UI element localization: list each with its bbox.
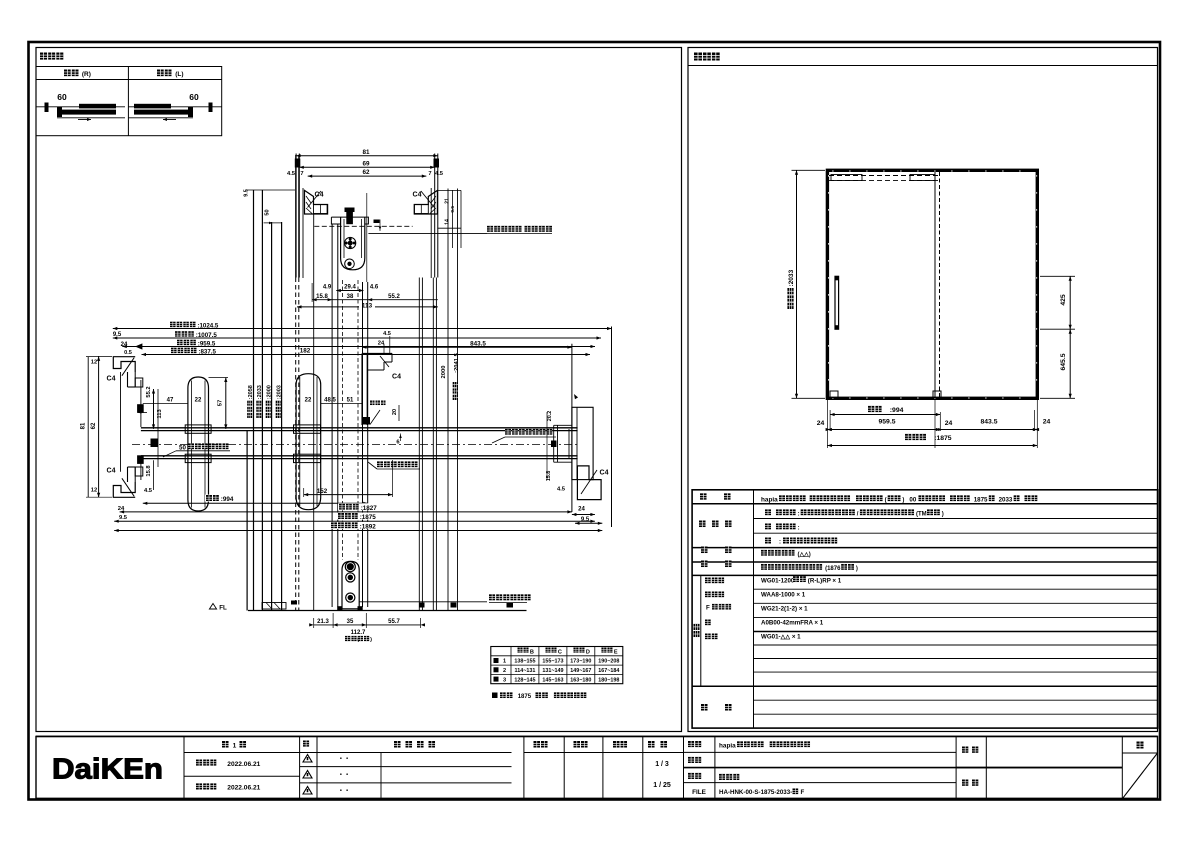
- svg-text::1875: :1875: [360, 514, 377, 521]
- svg-text:･ ･: ･ ･: [339, 770, 349, 779]
- svg-text:24: 24: [121, 342, 128, 348]
- svg-text:4.5: 4.5: [557, 487, 566, 493]
- svg-text:4.6: 4.6: [370, 285, 379, 291]
- svg-text::1892: :1892: [360, 524, 377, 531]
- svg-text:55.2: 55.2: [388, 294, 400, 300]
- svg-text:HA-HNK-00-S-1875-2033-: HA-HNK-00-S-1875-2033-: [719, 789, 792, 796]
- svg-text:47: 47: [167, 398, 174, 404]
- svg-text:4.5: 4.5: [287, 171, 296, 177]
- svg-text:20.2: 20.2: [547, 411, 553, 422]
- svg-text::959.5: :959.5: [198, 340, 216, 347]
- svg-text:C4: C4: [315, 192, 324, 199]
- svg-text:F: F: [706, 605, 710, 612]
- svg-text:2033: 2033: [999, 497, 1013, 504]
- svg-text:DaiKEn: DaiKEn: [52, 754, 163, 786]
- svg-text:(: (: [885, 498, 887, 504]
- svg-text:425: 425: [1060, 294, 1067, 306]
- svg-text:173~190: 173~190: [570, 659, 591, 665]
- svg-text:(L): (L): [175, 71, 183, 78]
- svg-text:FL: FL: [219, 605, 227, 612]
- svg-text::837.5: :837.5: [198, 348, 216, 355]
- svg-text:48.5: 48.5: [324, 398, 336, 404]
- svg-text::2041.5: :2041.5: [454, 352, 460, 372]
- svg-text:4.9: 4.9: [323, 285, 332, 291]
- svg-text:9.5: 9.5: [119, 515, 128, 521]
- svg-text:･ ･: ･ ･: [339, 754, 349, 763]
- svg-text::2003: :2003: [277, 385, 283, 399]
- svg-text:14: 14: [444, 219, 450, 225]
- svg-text:hapia: hapia: [761, 497, 778, 504]
- svg-text:2000: 2000: [441, 366, 447, 379]
- svg-text:7: 7: [300, 171, 303, 177]
- svg-text:C4: C4: [413, 192, 422, 199]
- svg-text:C: C: [558, 649, 562, 655]
- svg-text:55.7: 55.7: [388, 619, 400, 625]
- svg-text:15.8: 15.8: [316, 294, 328, 300]
- svg-text:163~180: 163~180: [570, 677, 591, 683]
- svg-text::994: :994: [890, 407, 904, 414]
- svg-text::1007.5: :1007.5: [196, 332, 218, 339]
- svg-text:): ): [856, 566, 858, 572]
- svg-text:62: 62: [362, 169, 370, 176]
- svg-text:959.5: 959.5: [878, 419, 895, 426]
- svg-text::2000: :2000: [267, 385, 273, 399]
- svg-text:60: 60: [189, 92, 199, 102]
- svg-text:2022.06.21: 2022.06.21: [227, 761, 260, 768]
- svg-text:167~184: 167~184: [598, 668, 619, 674]
- svg-text:4.5: 4.5: [144, 488, 153, 494]
- svg-text:0.5: 0.5: [124, 350, 132, 356]
- svg-text:): ): [942, 512, 944, 518]
- svg-text::994: :994: [221, 496, 234, 503]
- svg-text:29.4: 29.4: [344, 285, 356, 291]
- svg-text::1827: :1827: [361, 505, 378, 512]
- svg-text:hapia: hapia: [719, 743, 736, 750]
- svg-text:128~145: 128~145: [514, 677, 535, 683]
- svg-text:00: 00: [909, 497, 916, 504]
- svg-text:9.5: 9.5: [244, 189, 250, 197]
- svg-text::: :: [779, 540, 781, 546]
- svg-text:WG01-1200: WG01-1200: [761, 577, 795, 584]
- svg-text:4.5: 4.5: [383, 331, 391, 337]
- svg-text:1 / 25: 1 / 25: [653, 782, 671, 789]
- svg-text:): ): [370, 637, 372, 643]
- svg-text:21: 21: [444, 198, 450, 204]
- svg-text::: :: [798, 512, 800, 518]
- svg-text:180~198: 180~198: [598, 677, 619, 683]
- svg-text:B: B: [530, 649, 534, 655]
- svg-text:9.5: 9.5: [581, 517, 590, 523]
- svg-text:C4: C4: [392, 374, 401, 381]
- svg-text:(TM: (TM: [916, 512, 927, 518]
- svg-text:155~173: 155~173: [542, 659, 563, 665]
- svg-text:645.5: 645.5: [1060, 353, 1067, 370]
- svg-text::2058: :2058: [248, 385, 254, 399]
- svg-text:20: 20: [392, 409, 398, 415]
- svg-text:1: 1: [233, 743, 237, 750]
- svg-text:･ ･: ･ ･: [339, 786, 349, 795]
- svg-text:24: 24: [118, 506, 125, 512]
- svg-text:): ): [902, 498, 904, 504]
- svg-text:(1876: (1876: [825, 566, 841, 572]
- svg-text:152: 152: [317, 488, 328, 495]
- svg-text:E: E: [614, 649, 618, 655]
- svg-text::1875: :1875: [934, 435, 952, 442]
- svg-text:C4: C4: [600, 470, 609, 477]
- svg-text:182: 182: [300, 348, 311, 355]
- svg-text:2: 2: [503, 668, 506, 674]
- svg-text:843.5: 843.5: [470, 340, 486, 347]
- svg-text:3: 3: [503, 677, 506, 683]
- svg-text:112.7: 112.7: [351, 630, 366, 636]
- svg-text:D: D: [586, 649, 590, 655]
- svg-text:60: 60: [57, 92, 67, 102]
- svg-text:FILE: FILE: [692, 789, 707, 796]
- svg-text:1 / 3: 1 / 3: [655, 761, 669, 768]
- svg-text:C4: C4: [107, 376, 116, 383]
- svg-text:114~131: 114~131: [515, 668, 536, 674]
- svg-text:12: 12: [91, 488, 97, 494]
- svg-text:24: 24: [1043, 419, 1051, 426]
- svg-text:12: 12: [91, 360, 97, 366]
- svg-text:69: 69: [362, 160, 370, 167]
- svg-text:35: 35: [347, 619, 354, 625]
- svg-text:57: 57: [218, 400, 224, 406]
- svg-text:51: 51: [347, 398, 354, 404]
- svg-text:145~163: 145~163: [542, 677, 563, 683]
- svg-text:24: 24: [817, 420, 825, 427]
- svg-text:81: 81: [362, 149, 370, 156]
- svg-text:1875: 1875: [518, 694, 532, 700]
- svg-text:2022.06.21: 2022.06.21: [227, 785, 260, 792]
- svg-text:WG21-2(1-2) × 1: WG21-2(1-2) × 1: [761, 606, 808, 613]
- svg-text:1: 1: [503, 659, 506, 665]
- svg-text:149~167: 149~167: [570, 668, 591, 674]
- svg-text:(△△): (△△): [798, 551, 811, 558]
- svg-text:21.3: 21.3: [317, 619, 329, 625]
- svg-text:24: 24: [945, 420, 953, 427]
- svg-text:(R): (R): [82, 71, 91, 78]
- svg-text::1024.5: :1024.5: [197, 322, 219, 329]
- svg-text:22: 22: [195, 398, 202, 404]
- svg-text:A0B00-42mmFRA × 1: A0B00-42mmFRA × 1: [761, 619, 824, 626]
- svg-text:24: 24: [578, 507, 585, 513]
- svg-text:7: 7: [428, 171, 431, 177]
- svg-text:15.8: 15.8: [146, 465, 152, 477]
- svg-text:22: 22: [305, 398, 312, 404]
- svg-text:190~208: 190~208: [598, 659, 619, 665]
- svg-text:C4: C4: [107, 468, 116, 475]
- svg-text:WG01-△△ × 1: WG01-△△ × 1: [761, 633, 801, 640]
- svg-text:55.2: 55.2: [146, 386, 152, 397]
- svg-text:4.5: 4.5: [435, 171, 444, 177]
- svg-text:843.5: 843.5: [980, 419, 997, 426]
- svg-text:WAA8-1000 × 1: WAA8-1000 × 1: [761, 591, 806, 598]
- svg-text:F: F: [801, 789, 805, 796]
- svg-text::: :: [798, 526, 800, 532]
- svg-text:(R-L)RP × 1: (R-L)RP × 1: [808, 577, 842, 584]
- svg-text::2033: :2033: [788, 269, 795, 286]
- svg-text:50: 50: [265, 209, 271, 215]
- svg-text:81: 81: [81, 422, 87, 429]
- svg-text:38: 38: [347, 294, 354, 300]
- svg-text:62: 62: [91, 422, 97, 429]
- svg-text::2033: :2033: [257, 385, 263, 399]
- svg-text:131~149: 131~149: [542, 668, 563, 674]
- svg-text:138~155: 138~155: [514, 659, 535, 665]
- svg-text:9.5: 9.5: [113, 332, 122, 338]
- svg-text:1875: 1875: [974, 497, 988, 504]
